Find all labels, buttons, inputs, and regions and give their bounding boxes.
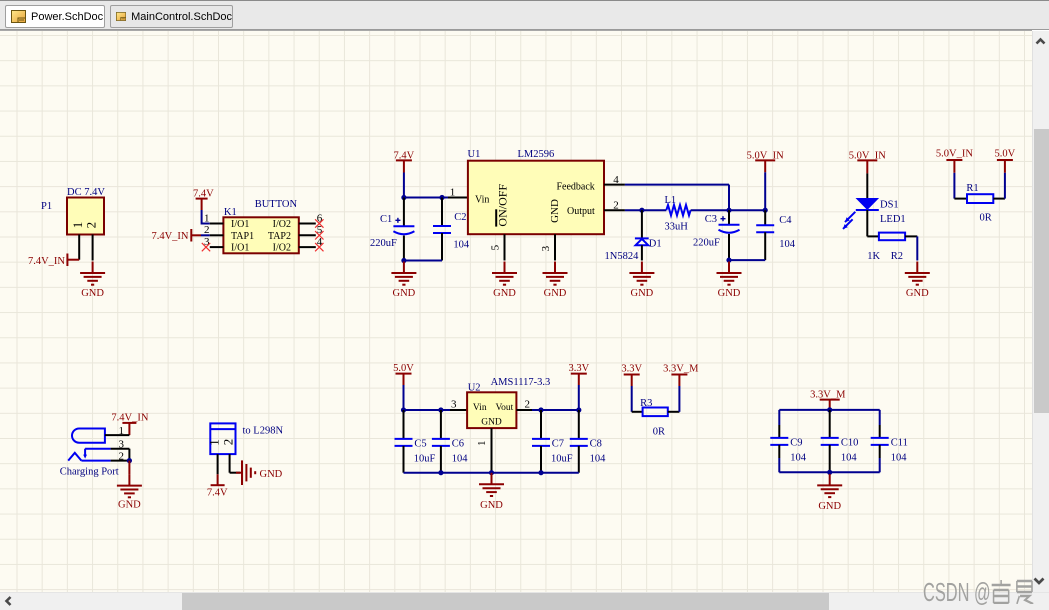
svg-text:C4: C4 [779, 215, 792, 226]
svg-text:to L298N: to L298N [243, 425, 284, 436]
svg-text:DS1: DS1 [880, 200, 899, 211]
svg-text:2: 2 [525, 399, 531, 411]
svg-text:220uF: 220uF [693, 237, 720, 248]
svg-text:3: 3 [119, 439, 125, 451]
svg-text:C7: C7 [552, 438, 564, 449]
svg-text:I/O2: I/O2 [273, 219, 291, 230]
svg-text:R2: R2 [891, 251, 903, 262]
svg-text:104: 104 [841, 452, 858, 463]
svg-text:1N5824: 1N5824 [605, 251, 640, 262]
svg-text:1: 1 [207, 439, 222, 446]
svg-text:GND: GND [81, 288, 104, 299]
svg-text:104: 104 [452, 453, 469, 464]
svg-text:TAP2: TAP2 [268, 231, 291, 242]
svg-text:GND: GND [480, 500, 503, 511]
svg-text:3.3V_M: 3.3V_M [663, 364, 699, 375]
svg-text:BUTTON: BUTTON [255, 199, 298, 210]
svg-text:GND: GND [118, 500, 141, 511]
svg-text:Charging Port: Charging Port [60, 467, 119, 478]
svg-text:1: 1 [476, 441, 488, 447]
svg-text:0R: 0R [980, 212, 992, 223]
svg-text:3.3V: 3.3V [568, 363, 589, 374]
svg-text:1: 1 [450, 186, 456, 198]
svg-text:LED1: LED1 [880, 214, 906, 225]
svg-text:C3: C3 [705, 214, 717, 225]
svg-text:D1: D1 [649, 238, 662, 249]
svg-text:2: 2 [204, 224, 210, 236]
svg-text:K1: K1 [224, 207, 237, 218]
svg-text:1: 1 [204, 212, 210, 224]
svg-text:104: 104 [790, 452, 807, 463]
svg-text:Feedback: Feedback [556, 182, 594, 193]
svg-text:I/O2: I/O2 [273, 243, 291, 254]
svg-text:104: 104 [891, 452, 908, 463]
svg-text:5.0V: 5.0V [995, 148, 1016, 159]
svg-text:GND: GND [260, 469, 283, 480]
svg-text:104: 104 [590, 453, 607, 464]
svg-text:0R: 0R [653, 427, 665, 438]
svg-text:3: 3 [540, 245, 552, 251]
svg-text:5.0V: 5.0V [393, 363, 414, 374]
svg-text:GND: GND [549, 199, 561, 223]
svg-text:7.4V_IN: 7.4V_IN [28, 256, 65, 267]
svg-text:104: 104 [453, 240, 470, 251]
svg-text:10uF: 10uF [414, 453, 436, 464]
svg-text:R1: R1 [966, 183, 978, 194]
svg-text:C11: C11 [891, 438, 908, 449]
svg-text:ON/OFF: ON/OFF [496, 184, 510, 227]
svg-text:L1: L1 [665, 195, 677, 206]
svg-text:3.3V: 3.3V [621, 364, 642, 375]
svg-text:Vin: Vin [475, 195, 489, 206]
svg-text:I/O1: I/O1 [231, 243, 249, 254]
svg-text:C1: C1 [380, 214, 392, 225]
svg-text:10uF: 10uF [551, 453, 573, 464]
svg-text:R3: R3 [640, 398, 652, 409]
svg-text:5: 5 [489, 244, 501, 250]
svg-text:Output: Output [567, 206, 595, 217]
svg-text:C10: C10 [841, 438, 859, 449]
svg-text:C2: C2 [454, 212, 466, 223]
svg-text:C5: C5 [414, 438, 426, 449]
svg-text:GND: GND [481, 418, 502, 428]
svg-text:I/O1: I/O1 [231, 219, 249, 230]
svg-text:GND: GND [493, 288, 516, 299]
svg-text:GND: GND [906, 288, 929, 299]
svg-text:1K: 1K [867, 251, 880, 262]
svg-text:220uF: 220uF [370, 238, 397, 249]
svg-text:1: 1 [119, 425, 125, 437]
svg-text:C8: C8 [590, 438, 602, 449]
svg-text:GND: GND [393, 288, 416, 299]
svg-text:2: 2 [221, 439, 236, 446]
svg-text:Vin: Vin [473, 403, 487, 413]
svg-text:GND: GND [718, 288, 741, 299]
svg-text:Vout: Vout [496, 403, 514, 413]
svg-text:GND: GND [818, 501, 841, 512]
svg-text:TAP1: TAP1 [231, 231, 254, 242]
svg-text:P1: P1 [41, 201, 52, 212]
svg-text:GND: GND [544, 288, 567, 299]
svg-text:AMS1117-3.3: AMS1117-3.3 [491, 377, 551, 388]
svg-text:7.4V_IN: 7.4V_IN [151, 231, 188, 242]
svg-text:33uH: 33uH [665, 222, 689, 233]
svg-text:GND: GND [631, 288, 654, 299]
svg-text:C6: C6 [452, 438, 464, 449]
svg-text:104: 104 [779, 239, 796, 250]
svg-text:3: 3 [451, 399, 457, 411]
svg-text:C9: C9 [790, 438, 802, 449]
svg-text:2: 2 [84, 222, 99, 229]
svg-text:7.4V: 7.4V [207, 487, 228, 498]
svg-text:U1: U1 [468, 149, 481, 160]
svg-text:DC 7.4V: DC 7.4V [67, 187, 105, 198]
svg-text:U2: U2 [468, 382, 481, 393]
svg-text:2: 2 [119, 450, 125, 462]
svg-text:5.0V_IN: 5.0V_IN [936, 148, 973, 159]
svg-text:LM2596: LM2596 [518, 149, 555, 160]
